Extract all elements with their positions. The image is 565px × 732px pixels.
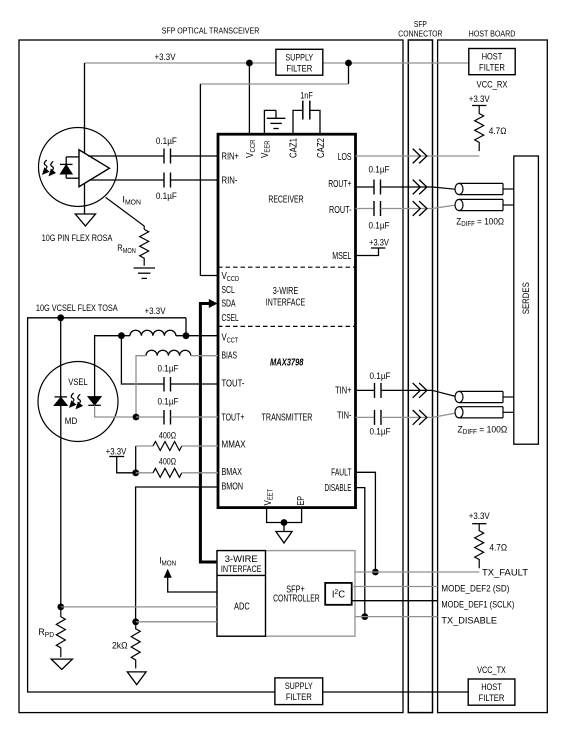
svg-text:ADC: ADC	[234, 602, 250, 613]
svg-text:LOS: LOS	[338, 152, 352, 163]
svg-text:0.1µF: 0.1µF	[369, 164, 390, 175]
svg-text:TIN-: TIN-	[337, 410, 352, 421]
TOSA circle	[38, 362, 118, 442]
svg-text:MD: MD	[65, 416, 78, 427]
svg-text:RIN-: RIN-	[222, 176, 238, 187]
svg-text:BMON: BMON	[222, 481, 244, 492]
wire: node to TOUT+ cap (gray)	[136, 416, 164, 418]
svg-text:TRANSMITTER: TRANSMITTER	[262, 413, 313, 424]
svg-text:2kΩ: 2kΩ	[112, 641, 128, 652]
wire diagonal to coax (ROUT+)	[433, 187, 457, 189]
wire: inductor to VCCT pin	[176, 335, 218, 337]
svg-text:CONTROLLER: CONTROLLER	[273, 594, 320, 605]
wire RPD node to ADC (gray)	[61, 606, 217, 608]
svg-text:CAZ2: CAZ2	[316, 138, 327, 158]
svg-text:MMAX: MMAX	[222, 439, 246, 450]
host filter box (TX)	[468, 679, 515, 705]
wire: BIAS inductor left down to TOUT+ node (gray)	[136, 356, 146, 417]
connector chevrons (ROUT+)	[413, 180, 427, 195]
svg-text:TIN+: TIN+	[335, 385, 352, 396]
wire: MD anode down to RPD node	[60, 405, 62, 607]
wire 2k node to ADC (gray)	[136, 621, 217, 623]
svg-text:CAZ1: CAZ1	[288, 138, 299, 158]
svg-text:4.7Ω: 4.7Ω	[489, 126, 507, 137]
capacitor C1 0.1uF (RIN+)	[164, 149, 171, 164]
svg-text:400Ω: 400Ω	[159, 457, 176, 468]
inductor L2 (BIAS)	[146, 350, 191, 355]
svg-text:0.1µF: 0.1µF	[158, 363, 179, 374]
svg-text:TOUT-: TOUT-	[222, 378, 245, 389]
host filter box (RX)	[469, 49, 515, 75]
svg-text:0.1µF: 0.1µF	[370, 426, 391, 437]
svg-text:RECEIVER: RECEIVER	[268, 194, 303, 205]
wire: cap to TOUT- pin	[171, 383, 219, 385]
capacitor C9 0.1uF (TIN-)	[375, 410, 382, 425]
svg-text:CONNECTOR: CONNECTOR	[398, 29, 442, 39]
ground (earth bars) at VEER	[267, 110, 286, 128]
node dot VEET/EP	[281, 519, 288, 526]
svg-text:VCC_TX: VCC_TX	[477, 665, 506, 676]
svg-text:ROUT-: ROUT-	[329, 205, 352, 216]
wire: rail branch down to VCCD feed	[348, 63, 350, 84]
wire RIN+ left segment	[88, 155, 164, 157]
supply filter box (bottom)	[275, 678, 323, 705]
ground triangle (open) RPD	[51, 659, 72, 669]
svg-text:0.1µF: 0.1µF	[156, 191, 177, 202]
svg-text:DISABLE: DISABLE	[325, 483, 352, 494]
wire diagonal to coax (TIN+)	[433, 390, 457, 396]
wire: VSEL anode up to VCCT node	[95, 336, 122, 397]
resistor RPD	[56, 607, 65, 657]
svg-text:TOUT+: TOUT+	[222, 413, 245, 424]
svg-text:BIAS: BIAS	[222, 351, 238, 362]
svg-text:HOST: HOST	[482, 52, 503, 63]
bus arrowhead into SDA	[209, 299, 218, 308]
wire TIN+	[356, 389, 375, 391]
coax transmission line (ROUT+)	[455, 183, 514, 194]
svg-text:0.1µF: 0.1µF	[158, 396, 179, 407]
wire: supply filter to host filter (gray)	[323, 62, 469, 64]
capacitor C8 0.1uF (TIN+)	[375, 383, 382, 398]
MSEL +3.3V tee	[371, 247, 385, 249]
connector chevrons (ROUT-)	[413, 201, 427, 216]
svg-text:FILTER: FILTER	[479, 693, 505, 704]
resistor R5 4.7ohm pullup (TX_FAULT)	[472, 523, 486, 525]
wire BMON left and down to 2k node	[136, 487, 218, 622]
resistor R4 2k	[131, 622, 140, 669]
capacitor C2 0.1uF (RIN-)	[164, 173, 171, 188]
node dot 2k	[132, 618, 139, 625]
ground triangle (open) below EP	[276, 532, 292, 544]
svg-text:SERDES: SERDES	[521, 282, 532, 314]
svg-text:+3.3V: +3.3V	[155, 52, 176, 63]
svg-text:MODE_DEF1 (SCLK): MODE_DEF1 (SCLK)	[441, 600, 514, 611]
node dot TX_FAULT	[372, 569, 379, 576]
svg-text:TX_DISABLE: TX_DISABLE	[441, 616, 497, 627]
svg-text:SDA: SDA	[222, 299, 236, 310]
+3.3V tee and stub to BMAX node	[109, 456, 124, 458]
svg-text:RIN+: RIN+	[222, 152, 240, 163]
capacitor C3 1nF across CAZ1/CAZ2	[293, 101, 320, 135]
node dot: TOUT+ coupling node	[133, 414, 140, 421]
wire TX_FAULT (gray)	[355, 571, 479, 573]
resistor R3 4.7ohm pullup (LOS)	[472, 105, 486, 107]
node dot: VCCT inductor right	[183, 332, 190, 339]
wire: VCCR drop (black)	[248, 63, 250, 134]
connector chevrons (LOS)	[413, 149, 427, 164]
ground triangle (open) 2k	[127, 672, 146, 685]
wire VEER to ground	[264, 110, 276, 134]
svg-text:HOST BOARD: HOST BOARD	[469, 29, 516, 39]
wire: rail down to VCCT inductor node	[185, 318, 187, 336]
coax transmission line (ROUT-)	[455, 199, 514, 210]
wire TX_DISABLE (gray)	[355, 616, 438, 618]
photodiode D1 in ROSA	[60, 157, 79, 178]
wire: VSEL cathode to TOUT+ node (gray)	[95, 405, 136, 417]
inductor L1 (VCCT feed)	[121, 335, 129, 337]
svg-text:HOST: HOST	[481, 682, 502, 693]
svg-text:SCL: SCL	[222, 285, 236, 296]
wire: horizontal feed to VCCD drop (gray)	[200, 83, 348, 85]
svg-text:+3.3V: +3.3V	[145, 306, 166, 317]
svg-text:1nF: 1nF	[300, 90, 313, 101]
SERDES box	[514, 156, 539, 444]
ROSA circle	[39, 128, 118, 207]
host board box	[438, 40, 548, 713]
node dot: rail branch	[345, 60, 352, 67]
resistor R1 400 (MMAX)	[136, 445, 153, 447]
svg-text:TX_FAULT: TX_FAULT	[482, 568, 528, 579]
wire: IMON diagonal from ROSA to RMON	[106, 197, 145, 229]
SFP+ controller box (gray outline)	[217, 551, 355, 637]
wire RIN- left segment	[89, 179, 164, 181]
node dot: MD cathode on rail	[57, 314, 64, 321]
svg-text:SUPPLY: SUPPLY	[285, 52, 313, 63]
svg-text:400Ω: 400Ω	[159, 430, 176, 441]
svg-text:FILTER: FILTER	[286, 692, 312, 703]
node dot RPD	[57, 604, 64, 611]
SFP module outer border box	[19, 40, 403, 713]
svg-text:MODE_DEF2 (SD): MODE_DEF2 (SD)	[441, 583, 509, 594]
svg-text:10G PIN FLEX ROSA: 10G PIN FLEX ROSA	[42, 233, 113, 244]
resistor R2 400 (BMAX)	[136, 472, 153, 474]
I2C box	[325, 583, 352, 605]
svg-text:INTERFACE: INTERFACE	[266, 298, 306, 309]
svg-text:FILTER: FILTER	[479, 63, 505, 74]
svg-text:VCC_RX: VCC_RX	[477, 79, 508, 90]
dashed divider (3-wire / transmitter)	[218, 325, 356, 327]
wire: bottom supply filter to host filter TX	[323, 691, 469, 693]
svg-text:CSEL: CSEL	[222, 313, 239, 324]
TIA amplifier triangle inside ROSA	[79, 150, 109, 187]
wire LOS (gray)	[356, 155, 480, 157]
wire: +3.3V drop into ROSA (black)	[84, 63, 86, 214]
svg-text:0.1µF: 0.1µF	[370, 371, 391, 382]
svg-text:BMAX: BMAX	[222, 467, 243, 478]
wire diagonal to coax (TIN-)	[433, 413, 457, 417]
wire: TOSA +3.3V rail from bottom supply filter	[28, 318, 275, 692]
svg-text:VSEL: VSEL	[68, 377, 88, 388]
wire ROUT- (gray)	[356, 208, 375, 210]
wire: inductor to BIAS pin (gray)	[191, 355, 218, 357]
light arrows from VCSEL	[70, 393, 83, 409]
3-wire interface / ADC cells	[217, 551, 266, 637]
ground (earth bars) for RMON	[134, 268, 156, 278]
svg-text:0.1µF: 0.1µF	[156, 136, 177, 147]
SFP connector box	[408, 40, 432, 713]
monitor diode MD (cathode bar up)	[55, 397, 68, 405]
ground triangle (open) below ROSA	[75, 214, 95, 226]
svg-text:FAULT: FAULT	[331, 468, 351, 479]
wire: cap to TOUT+ pin (gray)	[171, 416, 219, 418]
node dot: VCCT inductor left	[118, 332, 125, 339]
wire RIN- right segment	[171, 179, 219, 181]
3-wire bus thick wire to SDA pin	[200, 304, 217, 563]
svg-text:SFP: SFP	[414, 19, 427, 29]
wire VEET/EP to ground	[267, 508, 302, 523]
IMON arrow into ADC	[164, 569, 172, 578]
svg-text:3-WIRE: 3-WIRE	[273, 286, 299, 297]
svg-text:EP: EP	[296, 496, 307, 506]
svg-text:SFP OPTICAL TRANSCEIVER: SFP OPTICAL TRANSCEIVER	[162, 26, 260, 36]
svg-text:+3.3V: +3.3V	[369, 237, 389, 248]
wire MODE_DEF1 (black)	[352, 600, 438, 602]
svg-text:MAX3798: MAX3798	[270, 358, 304, 369]
laser diode VSEL (points down)	[88, 397, 101, 406]
capacitor C4 0.1uF (TOUT-)	[164, 377, 171, 392]
light arrows into photodiode	[43, 160, 56, 176]
svg-text:+3.3V: +3.3V	[469, 511, 490, 522]
node dot: rail to VCCR	[246, 60, 253, 67]
svg-text:ROUT+: ROUT+	[328, 179, 351, 190]
svg-text:+3.3V: +3.3V	[106, 446, 127, 457]
wire ROUT+	[356, 186, 375, 188]
svg-text:MSEL: MSEL	[332, 251, 352, 262]
svg-text:INTERFACE: INTERFACE	[221, 564, 262, 575]
svg-text:SUPPLY: SUPPLY	[285, 681, 313, 692]
wire RIN+ right segment	[171, 155, 219, 157]
capacitor C6 0.1uF (ROUT+)	[374, 180, 381, 195]
svg-text:I2C: I2C	[332, 589, 345, 601]
svg-text:10G VCSEL FLEX TOSA: 10G VCSEL FLEX TOSA	[36, 303, 118, 314]
dashed divider (receiver / 3-wire)	[218, 266, 356, 268]
node dot TX_DISABLE	[361, 613, 368, 620]
wire: +3.3V rail left segment + drop into ROSA (gray)	[85, 62, 276, 64]
wire: node up to MMAX resistor	[135, 446, 137, 473]
wire: VCCD vertical feed (black)	[200, 84, 218, 276]
wire: MD cathode up to rail	[60, 318, 62, 397]
wire: VCCT node down to TOUT- coupling	[121, 336, 164, 384]
svg-text:FILTER: FILTER	[286, 63, 312, 74]
wire MODE_DEF2 (gray)	[352, 586, 438, 588]
capacitor C5 0.1uF (TOUT+)	[164, 410, 171, 425]
coax transmission line (TIN+)	[455, 391, 514, 402]
node dot: bias resistor supply node	[132, 469, 139, 476]
coax transmission line (TIN-)	[455, 407, 514, 418]
wire FAULT to TX_FAULT node	[356, 472, 376, 572]
svg-text:+3.3V: +3.3V	[469, 94, 490, 105]
connector chevrons (TIN+)	[413, 383, 427, 398]
wire TIN- (gray)	[356, 416, 375, 418]
wire DISABLE to TX_DISABLE node	[356, 488, 365, 617]
capacitor C7 0.1uF (ROUT-)	[374, 201, 381, 216]
supply filter box (top)	[276, 49, 323, 75]
connector chevrons (TIN-)	[413, 410, 427, 425]
wire diagonal to coax (ROUT-)	[433, 205, 457, 209]
IC U1 MAX3798 body	[218, 134, 356, 507]
resistor RMON	[140, 229, 149, 265]
svg-text:0.1µF: 0.1µF	[369, 220, 390, 231]
svg-text:4.7Ω: 4.7Ω	[489, 542, 507, 553]
